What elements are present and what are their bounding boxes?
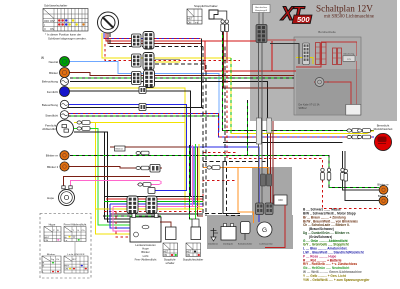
wire G headlight bright green	[74, 129, 130, 226]
legend color code table	[303, 208, 370, 282]
indicator lamp beleuchtung	[42, 78, 69, 86]
svg-text:Blinker re: Blinker re	[46, 154, 59, 158]
bullet connectors tail green	[347, 129, 360, 133]
table Stopplicht hinten	[183, 243, 204, 262]
wire red inset box	[261, 25, 263, 42]
handlebar switch group dashed box	[40, 214, 91, 279]
wire B taillight down pair	[343, 151, 380, 190]
wire B headlight ground drop	[105, 132, 131, 219]
wire R/Y stop switch feed	[226, 32, 228, 61]
svg-text:Rücklichteinheit: Rücklichteinheit	[374, 127, 393, 131]
brake switch front box	[160, 222, 176, 240]
bullet connector stop switch 1	[221, 20, 225, 32]
bullet connector pink	[138, 183, 151, 187]
svg-text:CDI: CDI	[278, 198, 283, 202]
wire R inset vertical	[271, 41, 273, 71]
key switch S1	[98, 12, 119, 33]
brake switch rear box	[191, 219, 201, 240]
wire R/Y harness bundle dashed	[104, 211, 203, 213]
wire L harness bundle	[110, 203, 203, 205]
inner sub-circuit box Bordnetzteile	[294, 37, 361, 115]
svg-text:Stopplichtschalter: Stopplichtschalter	[183, 258, 204, 262]
tail light unit	[374, 124, 393, 151]
breaker cylinder	[241, 222, 251, 241]
table Stopplicht vorn	[163, 243, 178, 265]
svg-text:Schlüssel abgezogen werden.: Schlüssel abgezogen werden.	[48, 37, 87, 41]
inset fuse group 1	[316, 43, 327, 65]
wire P horn pink loop	[71, 181, 162, 189]
wire yellow inset stub	[296, 58, 313, 65]
wire link between tables	[74, 242, 76, 256]
wire R/Y from key dashed	[105, 44, 240, 61]
svg-text:SR50-2: SR50-2	[299, 107, 308, 110]
inset flasher circle	[315, 78, 329, 87]
wire R generator dark red pair	[270, 121, 272, 204]
svg-text:Zündkerze: Zündkerze	[208, 243, 219, 246]
wire B/W vertical pair left	[203, 47, 222, 214]
wire B/W dash lower	[227, 162, 241, 216]
wire R harness bundle	[106, 198, 203, 200]
table Fern-Abblendlicht	[64, 224, 87, 242]
svg-text:Schaltplan 12V: Schaltplan 12V	[316, 4, 373, 14]
svg-text:ON: ON	[45, 240, 49, 242]
bullet connector brown pair	[136, 166, 149, 170]
svg-text:Blinker: Blinker	[47, 253, 56, 256]
svg-text:ON*: ON*	[50, 19, 55, 23]
wire Dg blinker re green dashed	[70, 155, 379, 187]
svg-text:Fern-/Abblendlicht: Fern-/Abblendlicht	[64, 224, 87, 227]
wire L/W standlicht blue w red dash	[68, 113, 374, 137]
svg-text:ON: ON	[164, 254, 168, 257]
indicator blinker li front	[47, 162, 69, 171]
svg-text:Stopplichtschalter: Stopplichtschalter	[194, 4, 218, 8]
svg-text:Gleichrichtg.: Gleichrichtg.	[343, 53, 355, 56]
svg-text:Hupe: Hupe	[142, 247, 149, 251]
wire bundle to lenker box R/Y	[116, 212, 130, 238]
wire red inset right	[356, 61, 358, 105]
svg-text:500: 500	[297, 15, 310, 24]
connector D1	[139, 87, 146, 94]
connector block C4	[143, 53, 154, 71]
bullet connector stop switch 2	[225, 20, 229, 32]
wire G harness bundle	[104, 201, 203, 203]
indicator lamp blinker orange	[49, 68, 69, 78]
ignition coil	[214, 224, 237, 241]
wire B/W vertical dashed	[224, 47, 226, 162]
svg-text:Zündspule: Zündspule	[223, 244, 234, 246]
wire Dg inset drop green dashed	[247, 100, 249, 155]
svg-text:Licht ON/OFF: Licht ON/OFF	[67, 253, 85, 256]
svg-text:Gleichrichter: Gleichrichter	[255, 6, 268, 9]
svg-text:Lenkerarmaturen: Lenkerarmaturen	[135, 243, 156, 247]
wire P harness bundle	[113, 206, 203, 208]
svg-text:schalter: schalter	[165, 261, 174, 265]
wire riser green to rear switch	[195, 202, 197, 220]
wire riser red dash to orange junction	[203, 181, 237, 212]
wire bundle to lenker box P	[113, 207, 130, 232]
bullet connectors rear vertical group	[321, 168, 325, 180]
wire Br brake to inset	[223, 32, 294, 88]
wire red inset flasher	[314, 82, 351, 105]
svg-text:Hupe: Hupe	[47, 196, 54, 200]
wire Y meter light	[68, 88, 203, 209]
wire Br/W blinker maroon	[69, 73, 294, 76]
indicator lamp fernlicht blue	[47, 87, 70, 97]
wire L/R key to main bundle blue	[104, 33, 201, 39]
svg-text:Fern-/Abblendlicht: Fern-/Abblendlicht	[135, 257, 157, 261]
svg-text:Bordnetzteile: Bordnetzteile	[318, 30, 336, 34]
wire red inset internal 2	[321, 42, 357, 56]
svg-text:G: G	[262, 227, 267, 234]
main connector block C8	[146, 196, 157, 214]
inset rectifier connector dark	[256, 13, 267, 43]
svg-text:Fernlicht: Fernlicht	[47, 90, 58, 94]
svg-text:ON: ON	[50, 27, 54, 31]
inset regulator box	[343, 53, 355, 62]
table Hupe	[44, 224, 61, 242]
rear blinker left	[378, 194, 389, 205]
svg-text:mit SR500 Lichtmaschine: mit SR500 Lichtmaschine	[324, 14, 374, 19]
wire G abblend green dashed	[68, 115, 219, 117]
wire L to generator	[187, 147, 259, 222]
svg-text:HET: HET	[188, 18, 193, 21]
wire orange coil feed	[238, 168, 254, 224]
connector block C1	[132, 34, 142, 47]
wire bundle to lenker box L	[110, 204, 130, 228]
lamp standlicht	[45, 111, 68, 119]
svg-text:Schlüsselschalter: Schlüsselschalter	[44, 4, 67, 8]
spark plug	[211, 228, 217, 241]
main connector block C7	[127, 196, 138, 214]
svg-text:Kontaktschalter: Kontaktschalter	[238, 243, 253, 246]
battery small box	[274, 195, 287, 205]
wire Br ignition	[108, 33, 201, 44]
svg-text:Lichtmaschine: Lichtmaschine	[259, 243, 273, 246]
wire G/Y stoplight to tail green dashed	[223, 32, 374, 131]
wire B headlamp ground	[68, 107, 203, 109]
wire Y tail feed	[231, 58, 374, 134]
wire riser green dash to rear switch	[190, 145, 193, 219]
connector block C6	[144, 70, 155, 88]
svg-text:Neutral: Neutral	[49, 60, 59, 64]
handlebar unit box	[130, 214, 161, 262]
inset white box bottom right	[346, 105, 361, 116]
svg-text:HET: HET	[45, 237, 51, 239]
Schluesselschalter table	[43, 4, 88, 32]
svg-text:ON: ON	[65, 269, 69, 271]
svg-text:Standlicht: Standlicht	[45, 113, 58, 117]
connector block C5	[132, 72, 142, 85]
wire Dg harness return	[103, 215, 161, 217]
rear blinker right	[377, 183, 389, 195]
gray inset panel top-right	[250, 0, 397, 121]
connector D2	[139, 104, 146, 111]
svg-text:Blinker: Blinker	[49, 71, 58, 75]
wire B/W horizontal to CDI dashed	[203, 161, 268, 163]
wire riser yellow	[198, 144, 200, 209]
wire B tail ground	[223, 142, 343, 144]
wire red dash overlay on blue	[104, 38, 201, 40]
wire Ch blinker li maroon	[66, 167, 162, 169]
svg-text:Beleuchtung: Beleuchtung	[42, 80, 58, 84]
horn	[47, 186, 74, 206]
wire dark inset left	[270, 44, 299, 65]
indicator blinker re front	[46, 151, 69, 160]
cable sheath bar	[256, 118, 261, 144]
wire black main down	[223, 162, 240, 214]
svg-text:Beleuchtung: Beleuchtung	[42, 103, 58, 107]
headlight	[42, 120, 73, 137]
svg-text:++: ++	[195, 21, 199, 25]
wire riser bright green	[195, 144, 197, 202]
svg-text:HET: HET	[65, 266, 71, 268]
wire Y/W regulator	[155, 61, 180, 63]
lamp beleuchtung 2	[42, 100, 69, 108]
svg-text:Licht: Licht	[143, 254, 149, 258]
bullet connector headlight G	[77, 127, 90, 131]
svg-text:OFF: OFF	[44, 19, 50, 23]
wire red inset top run	[256, 39, 296, 41]
svg-text:R/Y: R/Y	[73, 259, 78, 261]
indicator lamp neutral green	[49, 57, 70, 67]
wire orange CDI feed	[203, 168, 268, 181]
svg-text:Hupe: Hupe	[49, 224, 56, 227]
inset connector strip	[303, 43, 310, 65]
cable sheath bar 2	[267, 118, 272, 133]
wire W generator pair gray	[258, 43, 260, 205]
engine gray box bottom (CDI column)	[252, 167, 292, 249]
wire R battery feed	[106, 33, 262, 41]
wire Y headlight	[74, 123, 130, 235]
table Licht ON OFF	[64, 253, 88, 273]
svg-text:Blinker li: Blinker li	[47, 165, 58, 169]
engine gray box bottom (generator area)	[207, 215, 293, 249]
wire G/Y overlay	[230, 58, 232, 134]
svg-text:ON: ON	[188, 21, 192, 24]
wire R/Y short dash	[203, 152, 237, 154]
svg-text:Hauptzugriff: Hauptzugriff	[255, 9, 267, 12]
svg-text:12V: 12V	[347, 59, 351, 61]
bullet connectors tail blue	[347, 135, 360, 139]
wire B harness bundle	[105, 196, 204, 198]
svg-text:Blinker: Blinker	[141, 250, 149, 254]
Stopplichtschalter table hinten	[187, 4, 218, 25]
svg-text:Abblendlicht: Abblendlicht	[42, 127, 58, 131]
wire B/W motor stop dashed	[110, 33, 203, 47]
connector block C2	[143, 32, 154, 50]
wire Y generator light	[102, 33, 231, 58]
XT logo	[280, 4, 312, 25]
wire red inset internal 1	[296, 43, 321, 68]
wire B ground from key vertical	[201, 39, 203, 108]
svg-text:ON: ON	[187, 254, 191, 257]
wire Br horn	[64, 177, 151, 188]
wire R battery in engine box	[265, 205, 285, 248]
wire R/Y vertical dashed	[227, 61, 380, 209]
connector blue D5	[148, 188, 155, 194]
wire B vertical second	[155, 64, 206, 216]
bullet connector headlight Y	[77, 121, 90, 125]
wire B harness lower	[110, 213, 203, 215]
blinker relay	[115, 146, 126, 151]
connector dark D3	[150, 165, 160, 173]
wire Y headlight to riser	[95, 122, 185, 124]
generator connector 2	[265, 203, 273, 215]
generator connector 1	[256, 203, 264, 215]
wire L meterlight blue	[68, 105, 187, 191]
table Blinker	[42, 253, 61, 273]
wire W generator horizontal	[155, 59, 180, 61]
wire B gauges ground	[68, 91, 191, 197]
bullet connector relay green	[136, 151, 149, 155]
generator G	[257, 222, 272, 237]
bullet connector orange	[207, 166, 220, 170]
wire B ground top	[70, 82, 268, 175]
inner darker shaded area	[296, 69, 360, 115]
wire R lower feed	[205, 41, 296, 71]
wire riser pink	[192, 145, 194, 207]
wire Br blinkrelais out	[110, 147, 203, 216]
svg-text:Y/W .. Gelb/Weiß ..... + zum S: Y/W .. Gelb/Weiß ..... + zum Spannungsre…	[303, 278, 370, 282]
wire Y harness bundle	[95, 208, 203, 210]
inset fuse group 2	[333, 48, 342, 65]
svg-text:Blinkrel.: Blinkrel.	[116, 148, 124, 151]
wire Gb neutral skyblue	[69, 62, 219, 133]
wire B headlight second	[74, 132, 130, 222]
inset rectifier label box	[253, 5, 271, 13]
connector block C3	[132, 54, 142, 67]
wire riser blue	[193, 147, 195, 204]
svg-text:W: W	[41, 56, 44, 60]
brake pedal switch S2	[209, 10, 227, 19]
wire Dg green-black top	[70, 77, 294, 79]
CDI connectors dark	[261, 174, 272, 186]
